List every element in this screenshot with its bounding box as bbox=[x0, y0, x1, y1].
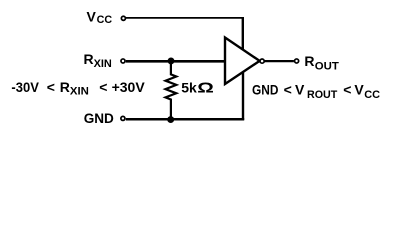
svg-text:CC: CC bbox=[97, 14, 112, 26]
svg-text:XIN: XIN bbox=[94, 58, 112, 70]
svg-text:GND: GND bbox=[252, 81, 278, 97]
svg-text:OUT: OUT bbox=[315, 61, 339, 73]
svg-text:V: V bbox=[295, 81, 305, 97]
svg-text:<: < bbox=[47, 79, 55, 95]
svg-text:+30V: +30V bbox=[112, 79, 146, 95]
svg-text:Ω: Ω bbox=[197, 79, 214, 96]
svg-text:XIN: XIN bbox=[70, 86, 89, 98]
svg-text:V: V bbox=[354, 81, 364, 97]
svg-text:V: V bbox=[87, 8, 97, 24]
svg-text:-30V: -30V bbox=[11, 80, 38, 96]
svg-text:<: < bbox=[99, 79, 107, 95]
svg-text:5k: 5k bbox=[181, 80, 197, 96]
svg-text:GND: GND bbox=[84, 111, 114, 126]
svg-text:R: R bbox=[84, 51, 94, 67]
svg-text:R: R bbox=[60, 79, 70, 95]
svg-text:ROUT: ROUT bbox=[307, 89, 338, 101]
svg-text:<: < bbox=[284, 81, 292, 97]
svg-text:CC: CC bbox=[364, 89, 380, 101]
svg-text:<: < bbox=[343, 81, 351, 97]
svg-text:R: R bbox=[304, 53, 314, 69]
